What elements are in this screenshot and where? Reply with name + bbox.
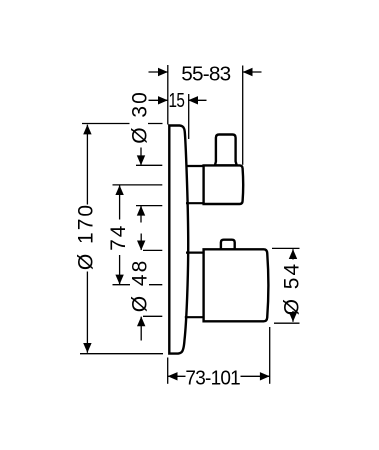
arrow 55-83 left	[158, 68, 168, 76]
dim Ø54 line lower	[292, 311, 294, 322]
dim 55-83 line left	[149, 71, 168, 73]
dim 55-83 line right	[243, 71, 262, 73]
extension line Ø48 bottom	[143, 315, 162, 317]
extension line wall/left (55-83 and 15)	[167, 65, 169, 125]
extension line 15 right	[188, 94, 190, 139]
svg-text:74: 74	[107, 224, 130, 251]
svg-text:Ø 170: Ø 170	[75, 203, 98, 270]
extension line Ø170 top	[82, 123, 163, 125]
dim 15 line right	[188, 99, 206, 101]
extension line Ø54 top	[272, 247, 300, 249]
handle stem (lever)	[215, 135, 237, 166]
svg-text:55-83: 55-83	[181, 64, 231, 86]
extension line body top (Ø30)	[136, 164, 162, 166]
arrow Ø170 bottom	[83, 343, 91, 353]
arrow Ø54 top	[289, 249, 297, 259]
arrow 74 bottom	[115, 275, 123, 285]
extension line body bottom (Ø30)	[136, 205, 162, 207]
plate (escutcheon side profile)	[169, 126, 188, 354]
extension line Ø54 bottom	[274, 322, 300, 324]
arrow Ø30 top	[137, 155, 145, 165]
arrow Ø48 bottom	[137, 317, 145, 327]
dim Ø30 lower tail	[140, 206, 142, 223]
extension line 74 bottom (knob centerline)	[113, 284, 163, 286]
dim Ø54 line upper	[292, 249, 294, 259]
arrow Ø30 bottom	[137, 206, 145, 216]
svg-text:Ø 48: Ø 48	[129, 259, 152, 313]
lower sleeve	[185, 253, 204, 318]
dim 74 line upper	[119, 185, 121, 219]
dim 73-101 line left	[168, 375, 186, 377]
extension line 73-101 left	[167, 358, 169, 384]
svg-text:Ø 54: Ø 54	[281, 262, 304, 316]
svg-text:15: 15	[169, 90, 185, 112]
dim Ø48 upper tail	[140, 234, 142, 250]
svg-text:Ø 30: Ø 30	[129, 90, 152, 144]
dim 15 line left	[149, 99, 168, 101]
arrow 73-101 left	[168, 372, 178, 380]
dim Ø30 upper tail	[140, 148, 142, 165]
arrow 15 right	[188, 96, 198, 104]
knob button	[221, 240, 235, 250]
upper sleeve	[186, 166, 203, 203]
arrow 55-83 right	[243, 68, 253, 76]
dim 74 line lower	[119, 255, 121, 284]
arrow Ø170 top	[83, 125, 91, 135]
arrow Ø48 top	[137, 241, 145, 251]
extension line 55-83 right	[242, 66, 244, 165]
dim Ø48 lower tail	[140, 317, 142, 341]
svg-text:73-101: 73-101	[185, 367, 240, 389]
extension line 74 top (body centerline)	[113, 184, 163, 186]
extension line Ø170 bottom	[80, 353, 163, 355]
dim Ø170 line lower	[86, 272, 88, 353]
arrow 15 left	[158, 96, 168, 104]
lower knob body	[204, 249, 269, 321]
arrow 74 top	[115, 185, 123, 195]
label Ø30 backing	[130, 90, 149, 146]
upper handle body	[204, 165, 244, 204]
dim Ø170 line upper	[86, 125, 88, 205]
arrow Ø54 bottom	[289, 312, 297, 322]
extension line 73-101 right	[269, 327, 271, 384]
arrow 73-101 right	[260, 372, 270, 380]
dim 73-101 line right	[241, 375, 270, 377]
label Ø48 backing	[130, 259, 149, 314]
extension line Ø48 top	[143, 249, 162, 251]
